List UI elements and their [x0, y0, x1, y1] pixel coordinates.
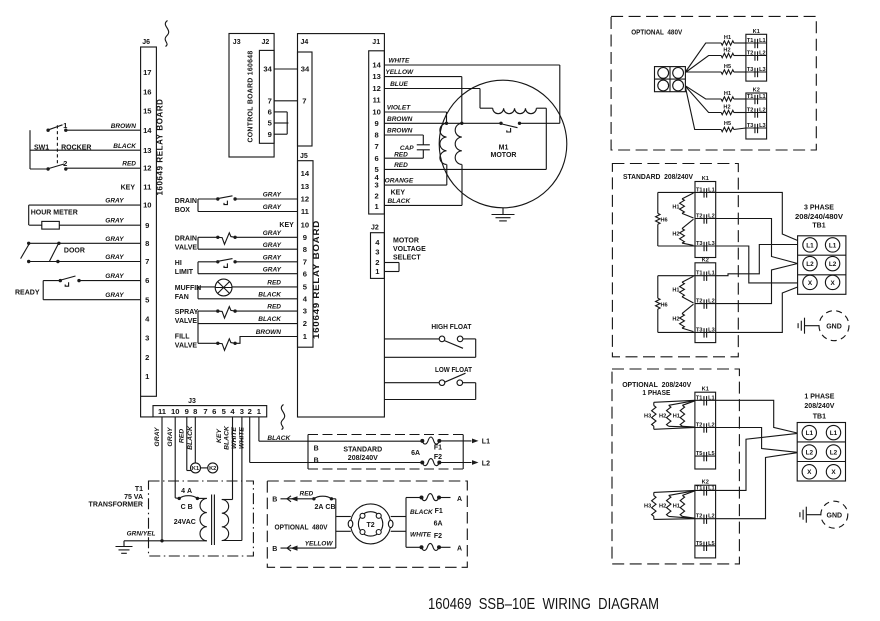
label GRAY J3-10 (vertical) — [167, 426, 174, 447]
svg-text:H3: H3 — [644, 504, 651, 510]
wire std K1-L1 to TB1 — [716, 192, 798, 240]
hour meter element — [42, 221, 60, 229]
contactor K2 (1 phase) — [695, 480, 716, 558]
svg-text:BROWN: BROWN — [111, 123, 137, 130]
label J3 (control board) — [233, 39, 241, 46]
label CONTROL BOARD 160648 — [245, 51, 254, 143]
label GRAY J3-11 (vertical) — [154, 426, 161, 447]
svg-text:2: 2 — [248, 407, 252, 416]
svg-text:208/240/480V: 208/240/480V — [795, 214, 843, 221]
svg-text:BOX: BOX — [175, 207, 191, 214]
svg-text:6: 6 — [303, 269, 307, 278]
svg-text:T1: T1 — [696, 395, 703, 401]
label STANDARD 208/240V (heater) — [623, 174, 693, 181]
transformer T1 core — [212, 495, 215, 546]
svg-text:L2: L2 — [759, 51, 766, 57]
wire J3-11 GRAY down — [160, 417, 163, 543]
label KEY J5-10 — [279, 222, 294, 229]
svg-text:RED: RED — [394, 162, 408, 169]
svg-text:L2: L2 — [806, 261, 814, 268]
svg-text:READY: READY — [15, 289, 40, 296]
svg-text:LIMIT: LIMIT — [175, 269, 194, 276]
svg-text:RED: RED — [300, 490, 314, 497]
svg-text:J2: J2 — [262, 39, 270, 46]
wire J1-8 BROWN (to cap) — [384, 128, 423, 145]
wire J6-13 BLACK — [30, 143, 141, 150]
svg-text:HI: HI — [175, 260, 182, 267]
motor M1 body — [439, 80, 567, 208]
svg-text:F1: F1 — [434, 444, 442, 451]
svg-text:F2: F2 — [434, 454, 442, 461]
label M1 MOTOR — [491, 144, 517, 159]
label FILL VALVE — [175, 333, 198, 349]
svg-text:C B: C B — [181, 504, 193, 511]
label BLACK J5-4 — [258, 291, 282, 298]
svg-text:BLACK: BLACK — [410, 509, 434, 516]
svg-text:WHITE: WHITE — [410, 532, 432, 539]
wire J3-2 WHITE down — [250, 417, 423, 463]
svg-text:T2: T2 — [747, 108, 754, 114]
fuse F1 (480V) — [406, 494, 451, 516]
svg-text:VALVE: VALVE — [175, 342, 198, 349]
svg-text:T2: T2 — [696, 214, 703, 220]
J1 pin numbers — [372, 61, 381, 211]
svg-text:6: 6 — [212, 407, 216, 416]
heater H2 (K1) — [721, 48, 746, 58]
wire J3-10 GRAY down — [175, 417, 179, 499]
label MOTOR VOLTAGE SELECT — [393, 238, 426, 262]
label BLACK J5-2 — [258, 316, 282, 323]
wire J1-5 RED — [384, 162, 546, 169]
svg-text:GRAY: GRAY — [263, 266, 282, 273]
wire J3-4 BLACK down — [222, 417, 233, 500]
svg-text:9: 9 — [374, 119, 378, 128]
svg-text:BLACK: BLACK — [258, 316, 282, 323]
drain box circuit — [198, 199, 298, 212]
svg-text:GRAY: GRAY — [263, 254, 282, 261]
svg-text:H2: H2 — [672, 317, 679, 323]
svg-text:L1: L1 — [830, 430, 838, 437]
svg-text:208/240V: 208/240V — [348, 455, 378, 462]
svg-text:10: 10 — [171, 407, 179, 416]
svg-text:T3: T3 — [696, 327, 703, 333]
wire control J2-34 to J4-34 — [274, 68, 297, 70]
svg-text:H5: H5 — [724, 121, 731, 127]
switch drain box — [216, 196, 237, 205]
svg-text:F1: F1 — [435, 508, 443, 515]
svg-text:T2: T2 — [747, 51, 754, 57]
motor main winding (left) — [440, 122, 448, 165]
svg-text:B: B — [314, 445, 319, 452]
svg-text:2: 2 — [303, 319, 307, 328]
svg-text:GND: GND — [826, 323, 842, 330]
svg-text:L1: L1 — [806, 430, 814, 437]
wire fan to K2 heaters — [685, 86, 721, 130]
heater H2 (1ph K1) — [659, 401, 695, 428]
svg-text:7: 7 — [145, 257, 149, 266]
label 6A (standard) — [411, 450, 420, 457]
svg-text:12: 12 — [372, 84, 380, 93]
optional 480V box — [267, 481, 467, 567]
terminal block TB1 (1 phase) — [797, 423, 845, 482]
svg-text:ROCKER: ROCKER — [61, 145, 91, 152]
switch READY — [59, 276, 81, 286]
svg-text:VALVE: VALVE — [175, 244, 198, 251]
wire J6-7 GRAY — [29, 254, 141, 262]
heater H3 (1ph K1) — [644, 400, 695, 429]
transformer T1 primary — [197, 498, 206, 540]
door switch 2 — [49, 242, 60, 264]
svg-text:H6: H6 — [661, 218, 668, 224]
svg-text:FILL: FILL — [175, 333, 190, 340]
svg-text:H2: H2 — [659, 504, 666, 510]
svg-text:X: X — [808, 280, 813, 287]
fuse F1 (standard) — [420, 437, 442, 451]
svg-text:GRN/YEL: GRN/YEL — [127, 531, 156, 538]
svg-text:GRAY: GRAY — [105, 292, 124, 299]
svg-text:BROWN: BROWN — [256, 329, 282, 336]
label T1 75 VA TRANSFORMER — [89, 486, 144, 509]
svg-text:24VAC: 24VAC — [174, 519, 196, 526]
svg-text:BLACK: BLACK — [267, 435, 291, 442]
svg-text:J6: J6 — [142, 39, 150, 46]
svg-text:GND: GND — [827, 512, 843, 519]
svg-text:GRAY: GRAY — [105, 254, 124, 261]
svg-text:YELLOW: YELLOW — [305, 541, 334, 548]
svg-text:L1: L1 — [708, 271, 715, 277]
svg-text:HOUR METER: HOUR METER — [31, 209, 78, 216]
svg-text:H1: H1 — [673, 414, 680, 420]
svg-text:7: 7 — [268, 96, 272, 105]
label OPTIONAL 480V (heater) — [631, 30, 682, 37]
svg-text:11: 11 — [301, 207, 310, 216]
svg-text:1 PHASE: 1 PHASE — [642, 390, 670, 397]
svg-text:13: 13 — [372, 72, 380, 81]
svg-text:BLACK: BLACK — [387, 198, 411, 205]
J2 jumper 2-1 — [384, 263, 399, 272]
motor centrifugal switch — [499, 122, 560, 132]
svg-text:VIOLET: VIOLET — [387, 105, 412, 112]
svg-text:OPTIONAL 480V: OPTIONAL 480V — [275, 524, 328, 531]
svg-text:L1: L1 — [829, 242, 837, 249]
svg-text:BLACK: BLACK — [113, 143, 137, 150]
wire break squiggle (J3) — [281, 405, 285, 430]
label DRAIN BOX — [175, 198, 197, 214]
connector J5 strip — [298, 153, 314, 347]
label DOOR — [64, 247, 85, 254]
svg-text:BROWN: BROWN — [387, 116, 413, 123]
svg-text:12: 12 — [143, 164, 151, 173]
svg-text:K1: K1 — [702, 176, 709, 182]
svg-text:7: 7 — [303, 257, 307, 266]
svg-text:RED: RED — [122, 161, 136, 168]
svg-text:HIGH FLOAT: HIGH FLOAT — [431, 324, 472, 331]
wire J1-6 RED (to cap) — [384, 150, 423, 159]
optional 480V heater enclosure — [611, 16, 816, 150]
svg-text:2: 2 — [375, 258, 379, 267]
svg-text:2: 2 — [374, 192, 378, 201]
control J2 pin numbers — [263, 65, 272, 139]
svg-text:9: 9 — [268, 130, 272, 139]
svg-text:3: 3 — [240, 407, 244, 416]
door switch 1 — [21, 242, 31, 264]
wire J3-3 WHITE down — [222, 417, 242, 541]
svg-text:T1: T1 — [135, 486, 143, 493]
label HOUR METER — [31, 209, 78, 216]
svg-text:10: 10 — [372, 108, 380, 117]
svg-text:H2: H2 — [723, 48, 730, 54]
svg-text:FAN: FAN — [175, 294, 189, 301]
svg-text:STANDARD 208/240V: STANDARD 208/240V — [623, 174, 693, 181]
svg-text:T2: T2 — [696, 299, 703, 305]
svg-text:7: 7 — [203, 407, 207, 416]
label KEY J3-5 (vertical) — [216, 428, 223, 443]
svg-text:YELLOW: YELLOW — [385, 69, 414, 76]
svg-text:T1: T1 — [747, 94, 754, 100]
terminal L1 — [439, 439, 490, 446]
svg-text:H5: H5 — [724, 64, 731, 70]
terminal A (F2) — [457, 546, 462, 553]
label 1 PHASE TB1 — [804, 394, 834, 421]
label HI LIMIT — [175, 260, 194, 276]
svg-text:2: 2 — [145, 353, 149, 362]
svg-text:J3: J3 — [188, 398, 196, 405]
heater H2 (std K1) — [672, 219, 693, 245]
terminal block TB1 (3 phase) — [798, 236, 846, 294]
heater H2 (1ph K2) — [659, 491, 695, 519]
label RED J5-5 — [267, 280, 281, 287]
wire J1-14 WHITE — [384, 57, 559, 123]
svg-text:34: 34 — [301, 65, 310, 74]
svg-text:L2: L2 — [708, 423, 715, 429]
heater H6 (std K2) — [656, 276, 695, 333]
label KEY (J1) — [391, 190, 406, 197]
label SPRAY VALVE — [175, 309, 199, 325]
heater H5 (K1) — [721, 64, 746, 74]
wire J3-8 BLACK down — [194, 417, 196, 463]
svg-text:4 A: 4 A — [181, 488, 192, 495]
svg-text:KEY: KEY — [121, 185, 136, 192]
svg-text:GRAY: GRAY — [263, 230, 282, 237]
svg-text:T1: T1 — [696, 187, 703, 193]
transformer T1 enclosure — [149, 481, 254, 556]
svg-text:16: 16 — [143, 87, 151, 96]
svg-text:T1: T1 — [696, 485, 703, 491]
relay board connector J6 — [141, 39, 157, 417]
contactor K2 (standard) — [695, 257, 716, 342]
svg-text:GRAY: GRAY — [263, 242, 282, 249]
heater H1 (1ph K2) — [673, 491, 695, 518]
svg-text:T5: T5 — [696, 541, 703, 547]
svg-text:GRAY: GRAY — [105, 273, 124, 280]
svg-text:F2: F2 — [434, 533, 442, 540]
svg-text:J3: J3 — [233, 39, 241, 46]
SW1 mechanical link — [56, 125, 58, 165]
heater H6 (std K1) — [656, 192, 695, 246]
svg-text:6: 6 — [145, 276, 149, 285]
standard heater enclosure — [612, 164, 738, 357]
label GRAY J5-9 — [263, 230, 282, 237]
label 3 PHASE TB1 — [795, 205, 843, 230]
svg-text:H6: H6 — [661, 302, 668, 308]
svg-text:GRAY: GRAY — [167, 426, 174, 447]
svg-text:L1: L1 — [708, 485, 715, 491]
svg-text:GRAY: GRAY — [105, 236, 124, 243]
label MUFFIN FAN — [175, 285, 201, 301]
svg-text:L3: L3 — [708, 327, 715, 333]
svg-text:L1: L1 — [806, 242, 814, 249]
wire J6-6 GRAY — [79, 273, 141, 281]
svg-text:RED: RED — [267, 280, 281, 287]
wire GRN/YEL — [124, 531, 207, 541]
terminal B (red feed) — [272, 490, 314, 503]
svg-text:75 VA: 75 VA — [124, 494, 143, 501]
svg-text:K2: K2 — [753, 88, 760, 94]
wire J6-8 GRAY — [29, 236, 141, 244]
svg-text:BLACK: BLACK — [258, 291, 282, 298]
svg-text:J5: J5 — [300, 153, 308, 160]
motor start winding — [493, 108, 547, 169]
svg-text:T3: T3 — [747, 67, 754, 73]
wire std K1-L2 to TB1 — [716, 219, 798, 264]
svg-text:J1: J1 — [372, 39, 380, 46]
svg-text:K1: K1 — [702, 387, 709, 393]
svg-text:8: 8 — [145, 239, 149, 248]
wire T2 primary bus — [336, 499, 351, 548]
svg-text:3: 3 — [145, 334, 149, 343]
label B terminals (standard) — [314, 445, 319, 464]
svg-text:T2: T2 — [696, 423, 703, 429]
wire 1ph K2-L1 to TB1 — [716, 433, 798, 490]
standard supply box — [308, 435, 463, 470]
jumper bus 6-5-9 — [286, 112, 288, 134]
svg-text:T1: T1 — [747, 38, 754, 44]
label RED J5-3 — [267, 304, 281, 311]
transformer T1 secondary — [222, 500, 229, 541]
svg-text:BLUE: BLUE — [390, 81, 408, 88]
svg-text:SW1: SW1 — [34, 145, 49, 152]
valve drain (coil) — [216, 233, 237, 245]
svg-text:KEY: KEY — [391, 190, 406, 197]
svg-text:GRAY: GRAY — [105, 218, 124, 225]
terminal block (480V) — [655, 67, 686, 92]
svg-text:K1: K1 — [192, 466, 199, 472]
svg-text:14: 14 — [301, 169, 310, 178]
svg-text:SPRAY: SPRAY — [175, 309, 199, 316]
J4 pin numbers — [301, 65, 310, 106]
svg-text:L5: L5 — [708, 451, 715, 457]
high float switch — [384, 336, 475, 357]
svg-text:L2: L2 — [829, 261, 837, 268]
svg-text:8: 8 — [374, 131, 378, 140]
svg-text:RED: RED — [267, 304, 281, 311]
svg-text:H3: H3 — [644, 414, 651, 420]
wire control J2-5 jumper — [274, 122, 288, 124]
wire J3-9 RED down — [187, 417, 192, 471]
muffin fan symbol — [215, 279, 232, 296]
label GRAY J5-11 — [263, 204, 282, 211]
svg-text:X: X — [831, 469, 836, 476]
svg-text:DRAIN: DRAIN — [175, 198, 197, 205]
wire J1-10 VIOLET — [384, 105, 446, 124]
svg-text:BLACK: BLACK — [187, 425, 194, 450]
svg-text:T5: T5 — [696, 451, 703, 457]
svg-text:6: 6 — [374, 154, 378, 163]
motor main winding (right) — [455, 122, 463, 165]
svg-text:L5: L5 — [708, 541, 715, 547]
svg-text:MOTOR: MOTOR — [491, 152, 517, 159]
svg-text:K2: K2 — [209, 466, 216, 472]
svg-text:L2: L2 — [708, 514, 715, 520]
switch SW1 pole 1 — [46, 121, 68, 132]
label READY — [15, 289, 40, 296]
switch SW1 pole 2 — [46, 159, 67, 171]
svg-text:7: 7 — [374, 142, 378, 151]
wire 1ph K2-L2 to TB1 — [716, 453, 798, 519]
svg-text:OPTIONAL 480V: OPTIONAL 480V — [631, 30, 682, 37]
svg-text:KEY: KEY — [216, 428, 223, 443]
J5 pin numbers — [301, 169, 310, 341]
label OPTIONAL 480V — [275, 524, 328, 531]
svg-text:14: 14 — [372, 61, 381, 70]
svg-text:2: 2 — [63, 159, 67, 168]
svg-text:L3: L3 — [708, 241, 715, 247]
svg-text:10: 10 — [143, 201, 151, 210]
wire J1-1 BLACK — [384, 165, 462, 206]
label GRAY J5-8 — [263, 242, 282, 249]
svg-text:T3: T3 — [696, 241, 703, 247]
svg-text:TRANSFORMER: TRANSFORMER — [89, 501, 143, 508]
transformer T2 — [348, 504, 393, 544]
wire SW1 left bus — [30, 130, 48, 169]
svg-text:KEY: KEY — [279, 222, 294, 229]
wire 1ph K1-L1 to TB1 — [716, 400, 798, 433]
contactor K1 (1 phase) — [695, 387, 716, 469]
wire std K2-L3 to TB1 — [716, 287, 798, 332]
svg-text:13: 13 — [143, 146, 151, 155]
svg-text:10: 10 — [301, 220, 309, 229]
label KEY (J6-11) — [121, 185, 136, 192]
heater H2 (std K2) — [672, 304, 693, 331]
fill valve circuit — [198, 337, 298, 344]
control board outline — [229, 34, 274, 158]
contactor K1 (standard) — [695, 176, 716, 258]
svg-text:15: 15 — [143, 107, 152, 116]
circuit breaker CB 4A — [178, 488, 200, 511]
svg-text:3 PHASE: 3 PHASE — [804, 205, 834, 212]
svg-text:12: 12 — [301, 195, 309, 204]
svg-text:8: 8 — [303, 245, 307, 254]
svg-text:T2: T2 — [696, 514, 703, 520]
svg-text:L1: L1 — [759, 94, 766, 100]
label J2 (control board) — [262, 39, 270, 46]
wire control J2-7 to J4-7 — [274, 100, 297, 102]
wire J1-3 ORANGE — [384, 165, 446, 186]
svg-text:208/240V: 208/240V — [804, 403, 834, 410]
svg-text:B: B — [272, 496, 277, 503]
label 24VAC — [174, 519, 196, 526]
wire J6-9 GRAY — [29, 218, 141, 226]
low float switch — [384, 373, 475, 399]
heater H1 (K1) — [721, 35, 746, 45]
svg-text:160469 SSB–10E WIRING DIAGR: 160469 SSB–10E WIRING DIAGRAM — [428, 596, 659, 613]
label BLACK (T2 out) — [410, 509, 434, 516]
label WHITE (T2 out) — [410, 532, 432, 539]
svg-text:B: B — [314, 457, 319, 464]
fuse F2 (480V) — [406, 533, 451, 550]
drain valve circuit — [198, 237, 298, 249]
optional 1-phase enclosure — [612, 369, 739, 564]
